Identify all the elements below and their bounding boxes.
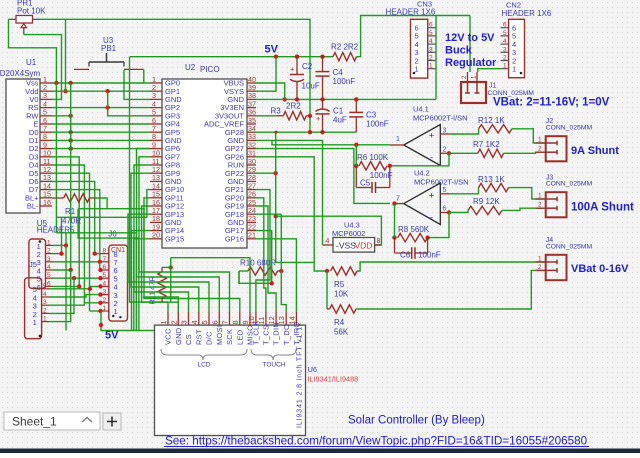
- svg-text:5: 5: [429, 30, 433, 37]
- svg-text:4: 4: [503, 38, 507, 45]
- wire R6 left to output: [355, 145, 357, 166]
- U5 pin 4: [46, 269, 54, 271]
- potentiometer PR1 wiper arrow: [21, 24, 26, 28]
- U6 pin 9 MISO: [249, 312, 251, 325]
- J6 pin 6: [101, 269, 109, 271]
- wire bundle vertical U5pin2: [61, 217, 63, 253]
- svg-text:VBat 0-16V: VBat 0-16V: [571, 263, 629, 275]
- wire D0 row to GP5: [52, 131, 150, 133]
- svg-text:5: 5: [103, 272, 107, 279]
- wire R5 to J4 pin1: [357, 262, 546, 271]
- svg-text:4: 4: [326, 238, 330, 245]
- svg-text:VCC: VCC: [164, 328, 173, 345]
- resistor R3 2R2: [256, 115, 277, 117]
- U2 pin 24 GP18: [247, 213, 256, 215]
- svg-text:1: 1: [538, 256, 542, 263]
- U2 pin 33 GND: [247, 139, 256, 141]
- wire U5 pin2 net: [53, 253, 62, 255]
- potentiometer PR1 leads: [9, 18, 17, 20]
- wire R11 side vertical: [170, 258, 172, 303]
- U2 pin 30 RUN: [247, 164, 256, 166]
- svg-text:R2 2R2: R2 2R2: [331, 43, 359, 52]
- wire R13 to J3 pin1: [509, 188, 546, 199]
- U2 pin 37 3V3EN: [247, 107, 256, 109]
- svg-text:12V to 5V: 12V to 5V: [445, 32, 495, 44]
- U2 pin 6 GP4: [150, 123, 162, 125]
- svg-text:2: 2: [443, 147, 447, 154]
- wire op-amp1 output net: [272, 140, 390, 144]
- J6 pin 4: [101, 285, 109, 287]
- svg-text:GP16: GP16: [225, 234, 244, 243]
- svg-text:2: 2: [538, 146, 542, 153]
- U1 pin 9 D2: [40, 148, 52, 150]
- svg-text:ILI9341/ILI9488: ILI9341/ILI9488: [308, 375, 359, 384]
- wire J6 pin1 net: [90, 310, 101, 312]
- LCD group brace: [161, 349, 247, 360]
- J4 prong 2: [546, 269, 557, 271]
- svg-text:4: 4: [429, 38, 433, 45]
- svg-text:2: 2: [169, 320, 178, 324]
- svg-text:5: 5: [43, 283, 47, 290]
- wire J5 pin5 net: [49, 286, 101, 288]
- svg-text:MCP6002T-I/SN: MCP6002T-I/SN: [413, 114, 468, 123]
- capacitor C2 10uF: [296, 57, 298, 74]
- U5 pin 1: [46, 244, 54, 246]
- svg-text:2: 2: [538, 202, 542, 209]
- display module U6 body: [155, 325, 306, 435]
- J5 pin 2: [42, 312, 49, 314]
- svg-text:1: 1: [538, 193, 542, 200]
- svg-text:21: 21: [248, 231, 256, 240]
- CN2 pin 2: [501, 60, 509, 62]
- wire GP21 to T_CLK: [256, 190, 270, 312]
- U2 pin 40 VBUS: [247, 82, 256, 84]
- wire R8 left to pin7: [394, 204, 396, 238]
- svg-text:5: 5: [443, 187, 447, 194]
- U6 pin 3 CS: [188, 312, 190, 325]
- CN3 pin 3: [428, 51, 436, 53]
- svg-text:CS: CS: [184, 334, 193, 345]
- U2 pin 26 GP20: [247, 197, 256, 199]
- U4.2 pin 5: [440, 193, 449, 195]
- svg-text:3: 3: [429, 46, 433, 53]
- wire D2 row to GP6: [52, 148, 150, 150]
- svg-text:-VSS: -VSS: [336, 241, 356, 251]
- svg-text:5: 5: [47, 272, 51, 279]
- wire MISO to R11 node: [171, 258, 250, 312]
- svg-text:GND: GND: [174, 328, 183, 345]
- svg-text:Sheet_1: Sheet_1: [12, 415, 57, 429]
- J3 leads: [536, 198, 546, 200]
- U6 pin 14 T_IRQ: [295, 312, 297, 325]
- svg-text:R9 12K: R9 12K: [473, 197, 500, 206]
- U1 pin 10 D3: [40, 156, 52, 158]
- U1 pin 8 D1: [40, 139, 52, 141]
- svg-text:+: +: [429, 190, 434, 200]
- svg-text:7: 7: [396, 196, 400, 203]
- wire GP26 to divider: [256, 157, 327, 271]
- wire D3 row: [52, 157, 79, 287]
- U2 pin 17 GP13: [150, 213, 162, 215]
- U6 pin 4 RST: [198, 312, 200, 325]
- svg-text:HEADER 1X6: HEADER 1X6: [502, 9, 552, 18]
- svg-text:56K: 56K: [334, 328, 349, 337]
- svg-text:J1: J1: [489, 83, 497, 90]
- wire J6 pin6 jog: [99, 262, 102, 270]
- U4.3 pin 8: [375, 244, 382, 246]
- svg-text:CONN_025MM: CONN_025MM: [546, 181, 593, 188]
- U1 pin 11 D4: [40, 164, 52, 166]
- svg-text:+: +: [290, 65, 295, 74]
- J6 pin 7: [101, 261, 109, 263]
- J5 pin 5: [42, 288, 49, 290]
- wire Vdd row to GP1: [52, 90, 150, 92]
- svg-text:GP15: GP15: [165, 234, 184, 243]
- U6 pin 12 T_DIN: [275, 312, 277, 325]
- wire U4.3 VDD feed: [276, 216, 382, 245]
- svg-text:3: 3: [180, 320, 189, 324]
- svg-text:-: -: [430, 212, 433, 222]
- svg-text:1: 1: [429, 63, 433, 70]
- wire pin5 to R13: [449, 188, 479, 194]
- U1 pin 5 RW: [40, 115, 52, 117]
- connector CN2 body: [509, 19, 525, 77]
- svg-text:LCD: LCD: [198, 362, 211, 369]
- connector J6 body: [109, 245, 128, 321]
- U1 pin 7 D0: [40, 131, 52, 133]
- wire GP19 to T_DIN: [256, 206, 276, 312]
- junction at J6 stub: [98, 301, 102, 305]
- svg-text:8: 8: [103, 248, 107, 255]
- wire GP10 row: [147, 190, 150, 218]
- wire bundle vertical Vss: [55, 83, 57, 233]
- wire J5 pin1 net: [49, 270, 71, 322]
- wire R9 to J3 pin2: [502, 208, 546, 210]
- wire RS row to GP2: [52, 107, 150, 109]
- svg-text:2: 2: [429, 55, 433, 62]
- wire pot left to Vss bundle: [9, 19, 57, 83]
- wire GP28 rail: [256, 131, 356, 133]
- wire GP18 junction: [256, 213, 281, 215]
- CN3 pin 6: [428, 27, 436, 29]
- connector U5 body: [29, 239, 46, 288]
- wire VBUS to 5V node: [256, 83, 285, 99]
- svg-text:100nF: 100nF: [418, 251, 441, 260]
- CN2 pin 1: [501, 68, 509, 70]
- push button PB1 body: [89, 61, 124, 63]
- svg-text:7: 7: [221, 320, 230, 324]
- svg-text:2: 2: [103, 297, 107, 304]
- svg-text:6: 6: [429, 22, 433, 29]
- svg-text:5V: 5V: [265, 44, 279, 56]
- svg-text:4: 4: [47, 264, 51, 271]
- svg-text:1: 1: [415, 65, 419, 74]
- wire J5 pin4 net: [49, 295, 101, 297]
- svg-text:TOUCH: TOUCH: [263, 362, 286, 369]
- U2 pin 36 3V3OUT: [247, 115, 256, 117]
- connector J2 body: [546, 136, 567, 161]
- wire D6 row: [52, 181, 95, 253]
- wire 5V to VSYS: [256, 57, 276, 91]
- svg-text:10uF: 10uF: [302, 82, 320, 91]
- wire harness GP6 to MOSI: [137, 149, 220, 312]
- svg-text:C5: C5: [360, 179, 371, 188]
- svg-text:8: 8: [231, 320, 240, 324]
- J6 pin 5: [101, 277, 109, 279]
- svg-text:5: 5: [503, 30, 507, 37]
- J2 prong 2: [546, 151, 557, 153]
- wire harness GP7 to SCK: [139, 157, 230, 312]
- svg-text:R4: R4: [334, 318, 345, 327]
- svg-text:R7 1K2: R7 1K2: [473, 140, 500, 149]
- CN3 pin 2: [428, 60, 436, 62]
- wire feedback R6 right: [390, 153, 449, 166]
- push button PB1 pins: [74, 68, 89, 70]
- wire J6 pin1 down to 5V wire: [101, 311, 155, 331]
- wire GP15 row: [134, 239, 150, 331]
- svg-text:C6: C6: [400, 251, 411, 260]
- svg-text:PB1: PB1: [101, 44, 117, 53]
- svg-text:1: 1: [503, 63, 507, 70]
- svg-text:PICO: PICO: [200, 65, 220, 74]
- wire harness GP8 to CS: [134, 165, 189, 312]
- connector J4 body: [546, 255, 567, 280]
- svg-text:1: 1: [43, 316, 47, 323]
- wire GP16 to T_IRQ: [256, 239, 296, 312]
- U6 pin 6 MOSI: [218, 312, 220, 325]
- U2 pin 21 GP16: [247, 238, 256, 240]
- resistor R5 10K: [325, 269, 329, 273]
- svg-text:1: 1: [103, 305, 107, 312]
- J6 pin 8: [101, 253, 109, 255]
- resistor R9 12K: [468, 206, 502, 214]
- U2 pin 13 GND: [150, 180, 162, 182]
- wire R10 right to T_DO: [281, 271, 286, 312]
- svg-text:U4.2: U4.2: [414, 169, 430, 178]
- svg-text:ILI9341 2.8 inch TFT v1.1: ILI9341 2.8 inch TFT v1.1: [297, 326, 304, 428]
- U2 pin 14 GP10: [150, 189, 162, 191]
- U4.1 pin 2: [440, 152, 449, 154]
- svg-text:-: -: [430, 152, 433, 162]
- svg-text:4uF: 4uF: [333, 116, 347, 125]
- wire 5V rail drop to LCD VCC: [130, 57, 169, 302]
- U1 pin 16 BL-: [40, 205, 52, 207]
- U4.1 pin 1 output: [390, 144, 404, 146]
- J4 prong 1: [546, 261, 557, 263]
- wire RW row: [52, 115, 71, 117]
- svg-text:3: 3: [503, 46, 507, 53]
- wire PB1 to GP2: [124, 70, 150, 99]
- svg-text:1: 1: [159, 320, 168, 324]
- wire U5 pin3 net: [53, 261, 100, 263]
- U6 pin 11 T_CS: [265, 312, 267, 325]
- svg-text:See: https://thebackshed.com/f: See: https://thebackshed.com/forum/ViewT…: [165, 435, 588, 448]
- svg-text:HEADER 1X6: HEADER 1X6: [386, 8, 436, 17]
- svg-text:+: +: [429, 130, 434, 140]
- J1 leads: [467, 72, 469, 82]
- U2 pin 15 GP11: [150, 197, 162, 199]
- op-amp U4.2 body: [404, 183, 441, 225]
- svg-text:1: 1: [396, 136, 400, 143]
- J5 pin 3: [42, 304, 49, 306]
- svg-text:6: 6: [210, 320, 219, 324]
- svg-text:RST: RST: [194, 329, 203, 345]
- svg-text:Pot 10K: Pot 10K: [17, 7, 46, 16]
- U2 pin 25 GP19: [247, 205, 256, 207]
- U2 pin 28 GND: [247, 180, 256, 182]
- svg-text:BL-: BL-: [27, 202, 39, 211]
- wire harness horizontal D: [78, 209, 139, 331]
- wire 5V rail: [130, 56, 334, 58]
- svg-text:Buck: Buck: [445, 45, 473, 57]
- wire GP22 down: [256, 172, 276, 174]
- connector CN3 body: [411, 19, 428, 78]
- resistor R6 100K: [354, 164, 358, 168]
- J1 prong pin1: [476, 82, 478, 93]
- svg-text:T_DO: T_DO: [282, 324, 291, 345]
- wire Vdd-RS drop to GP3: [108, 91, 150, 116]
- wire buck rail to CN3 pin6: [435, 16, 437, 100]
- wire GND rail under C2: [256, 98, 436, 100]
- wire J6 pin8 net: [95, 253, 101, 255]
- wire PB1 right to GP0: [144, 69, 150, 83]
- wire R7 to J2 pin2: [504, 152, 546, 153]
- U2 pin 12 GP9: [150, 172, 162, 174]
- junction at J6 stub: [98, 284, 102, 288]
- wire harness horizontal C: [56, 233, 136, 331]
- J2 prong 1: [546, 142, 557, 144]
- capacitor C3 100nF: [355, 99, 357, 112]
- svg-text:1: 1: [33, 318, 37, 327]
- svg-text:LED: LED: [235, 330, 244, 345]
- svg-text:J6: J6: [108, 230, 117, 239]
- svg-text:1: 1: [47, 239, 51, 246]
- mcu U2 PICO body: [162, 79, 247, 248]
- resistor R13 1K: [479, 183, 509, 191]
- wire J5 pin2 net: [49, 278, 74, 313]
- wire bundle vertical bus: [70, 83, 72, 270]
- U6 pin 10 T_CLK: [255, 312, 257, 325]
- capacitor C1 4uF: [322, 99, 324, 109]
- op-amp power U4.3 body: [333, 238, 375, 253]
- wire R2 to buck top rail: [357, 16, 471, 57]
- U2 pin 20 GP15: [150, 238, 162, 240]
- U4.2 pin 6: [440, 212, 449, 214]
- svg-text:3: 3: [443, 127, 447, 134]
- U2 pin 38 GND: [247, 98, 256, 100]
- U1 pin 2 Vdd: [40, 90, 52, 92]
- U2 pin 23 GND: [247, 221, 256, 223]
- svg-text:2: 2: [503, 55, 507, 62]
- svg-text:T_CS: T_CS: [262, 325, 271, 345]
- wire LCD VCC from 5V: [167, 302, 169, 312]
- svg-text:100nF: 100nF: [370, 171, 393, 180]
- bottom status bar: [0, 449, 640, 454]
- U2 pin 32 GP27: [247, 148, 256, 150]
- wire LCD GND: [143, 297, 178, 312]
- wire CN2 pin1 to J1 pin1: [478, 69, 501, 72]
- wire pot right rail to Vdd: [65, 19, 67, 91]
- U2 pin 1 GP0: [150, 82, 162, 84]
- wire R10 up: [280, 214, 282, 271]
- svg-text:6: 6: [503, 22, 507, 29]
- resistor R2 2R2: [333, 53, 357, 61]
- wire GP17 to R10 left: [239, 231, 272, 284]
- wire GP14 row: [132, 231, 151, 331]
- U2 pin 34 GP28: [247, 131, 256, 133]
- op-amp U4.1 body: [404, 125, 441, 166]
- U6 pin 5 D/C: [208, 312, 210, 325]
- wire J5 pin3 net: [49, 303, 101, 305]
- wire D5 row: [52, 173, 90, 311]
- CN3 pin 4: [428, 43, 436, 45]
- U2 pin 39 VSYS: [247, 90, 256, 92]
- svg-text:3: 3: [47, 256, 51, 263]
- junction at J6 stub: [98, 268, 102, 272]
- wire harness GP12 to rail: [142, 206, 150, 302]
- wire harness horizontal A: [78, 208, 107, 210]
- U1 pin 3 V0: [40, 98, 52, 100]
- svg-text:6: 6: [37, 283, 41, 292]
- wire GP20 to T_CS: [256, 198, 266, 312]
- U2 pin 8 GND: [150, 139, 162, 141]
- wire D4 row: [52, 165, 84, 303]
- svg-text:6: 6: [103, 264, 107, 271]
- connector J5 body: [25, 278, 42, 339]
- U2 pin 11 GP8: [150, 164, 162, 166]
- svg-text:100nF: 100nF: [366, 120, 389, 129]
- U2 pin 2 GP1: [150, 90, 162, 92]
- svg-text:D/C: D/C: [205, 331, 214, 345]
- wire pin6 to R9: [449, 210, 468, 212]
- svg-text:4: 4: [43, 291, 47, 298]
- wire GP27 to op-amp2 output: [256, 149, 390, 204]
- CN3 pin 1: [428, 68, 436, 70]
- wire GP22 long vertical: [276, 132, 315, 262]
- J1 prong pin2: [467, 82, 469, 93]
- U2 pin 31 GP26: [247, 156, 256, 158]
- svg-text:R13 1K: R13 1K: [478, 175, 505, 184]
- wire U5 pin1 net: [53, 244, 66, 246]
- U1 pin 6 E: [40, 123, 52, 125]
- J2 leads: [536, 142, 546, 144]
- wire E row to GP4: [52, 123, 150, 125]
- svg-text:C2: C2: [302, 62, 313, 71]
- wire harness horizontal B: [56, 216, 146, 218]
- svg-text:+: +: [316, 114, 321, 123]
- wire R10 left: [238, 271, 240, 283]
- svg-text:2: 2: [538, 264, 542, 271]
- svg-text:5V: 5V: [105, 330, 119, 342]
- wire J1 pin2 drop: [469, 16, 471, 73]
- svg-text:VBat: 2=11-16V; 1=0V: VBat: 2=11-16V; 1=0V: [493, 97, 610, 109]
- wire R1 to LCD LED: [95, 198, 240, 312]
- U2 pin 3 GND: [150, 98, 162, 100]
- capacitor C5 100nF: [355, 166, 357, 188]
- svg-text:R6 100K: R6 100K: [357, 153, 389, 162]
- CN2 pin 4: [501, 43, 509, 45]
- resistor R4 56K: [326, 271, 328, 309]
- U2 pin 18 GND: [150, 221, 162, 223]
- svg-text:3: 3: [43, 299, 47, 306]
- J4 leads: [536, 261, 546, 263]
- svg-text:MOSI: MOSI: [215, 325, 224, 345]
- U2 pin 9 GP6: [150, 148, 162, 150]
- J5 pin 4: [42, 296, 49, 298]
- connector J3 body: [546, 192, 567, 217]
- svg-text:3: 3: [103, 289, 107, 296]
- U2 pin 5 GP3: [150, 115, 162, 117]
